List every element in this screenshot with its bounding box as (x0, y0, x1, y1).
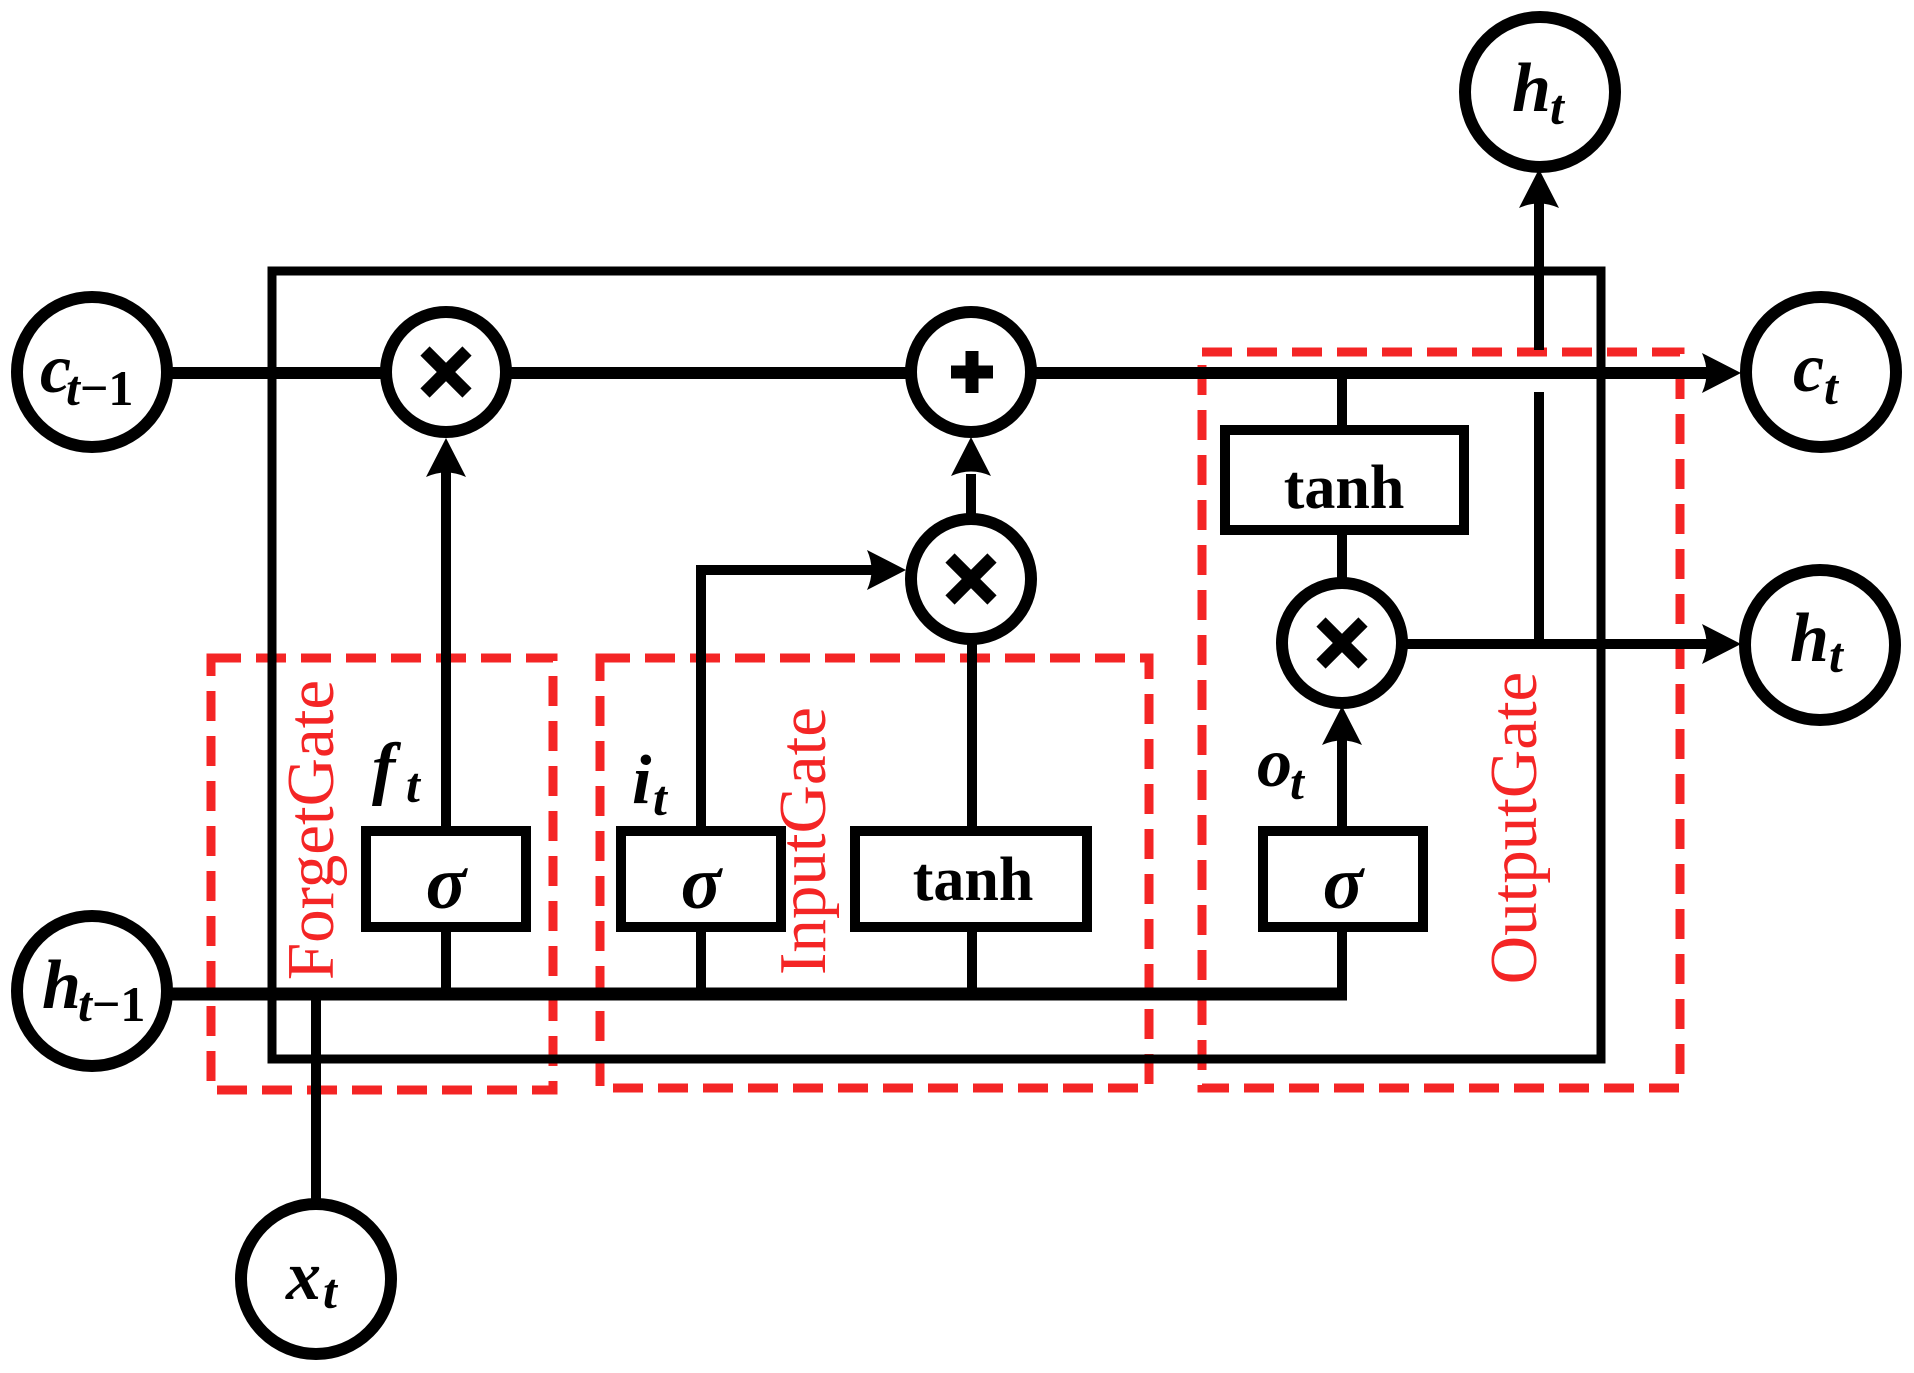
svg-text:t−1: t−1 (66, 360, 133, 416)
svg-text:ForgetGate: ForgetGate (274, 680, 348, 980)
svg-text:i: i (632, 742, 652, 819)
svg-text:h: h (1790, 600, 1829, 677)
svg-text:f: f (372, 730, 402, 807)
svg-text:σ: σ (426, 842, 469, 925)
svg-text:σ: σ (1323, 842, 1366, 925)
svg-text:t−1: t−1 (78, 976, 145, 1032)
svg-text:h: h (1512, 50, 1551, 127)
svg-text:OutputGate: OutputGate (1477, 672, 1551, 985)
svg-text:c: c (1793, 330, 1824, 407)
svg-text:x: x (285, 1238, 321, 1315)
svg-text:InputGate: InputGate (766, 707, 840, 975)
svg-text:t: t (1824, 359, 1840, 415)
svg-text:t: t (1290, 754, 1306, 810)
svg-text:tanh: tanh (913, 846, 1034, 914)
svg-text:tanh: tanh (1284, 454, 1405, 522)
svg-text:t: t (323, 1263, 339, 1319)
svg-text:t: t (1550, 79, 1566, 135)
svg-text:o: o (1257, 725, 1292, 802)
svg-text:σ: σ (681, 842, 724, 925)
svg-text:t: t (406, 757, 422, 813)
svg-text:t: t (653, 770, 669, 826)
svg-text:h: h (42, 947, 81, 1024)
svg-text:t: t (1829, 627, 1845, 683)
